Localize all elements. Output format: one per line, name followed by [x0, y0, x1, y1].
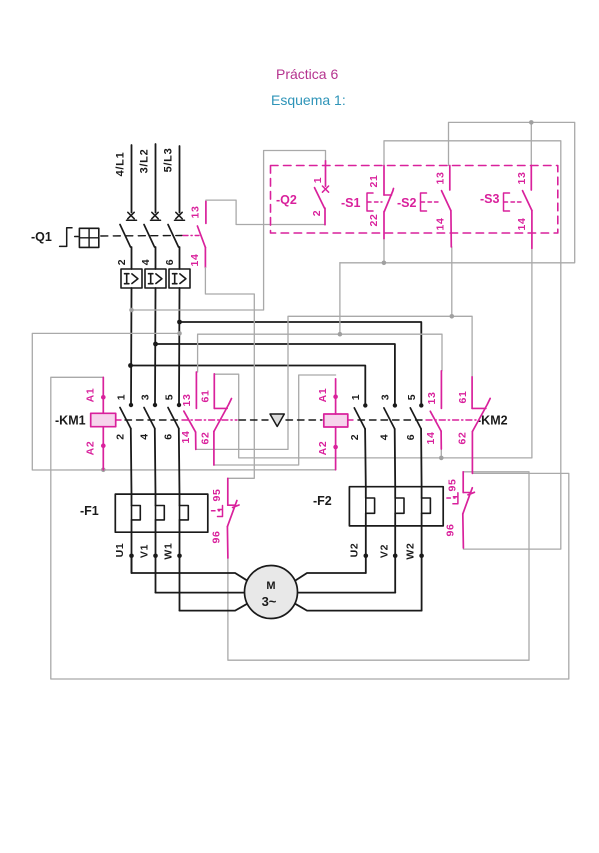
svg-text:A1: A1 — [85, 388, 97, 403]
svg-text:13: 13 — [181, 393, 193, 406]
junction on L1 for KM2 branch — [128, 363, 133, 368]
wire L2 between Q1 blade and overcurrent release — [155, 247, 157, 269]
contactor KM2 linkage dashes through aux — [426, 419, 476, 421]
contactor KM2 coil A2 lead — [335, 427, 337, 470]
pushbutton S1 NC blade — [384, 189, 393, 212]
wire KM2 14 drop to rail — [440, 431, 442, 458]
svg-text:13: 13 — [426, 391, 438, 404]
wire L2 from release down to KM1 pole 3 — [154, 288, 157, 405]
wire U2 to motor — [294, 573, 366, 581]
terminal dot V1 — [153, 554, 158, 559]
terminal dot W1 — [177, 554, 182, 559]
wire L2 branch to KM2 pole 3 — [156, 344, 395, 405]
breaker Q1 pole 2 terminal bar — [151, 219, 161, 221]
svg-text:5/L3: 5/L3 — [163, 148, 175, 173]
breaker Q2 X mark — [322, 186, 328, 192]
svg-text:4: 4 — [140, 259, 152, 266]
wire S3 13 supply drop — [530, 122, 532, 165]
junction KM2 A2 — [333, 445, 338, 450]
svg-text:Esquema 1:: Esquema 1: — [271, 92, 346, 108]
thermal relay F1 heater element pole2 — [156, 506, 165, 520]
svg-text:14: 14 — [435, 217, 447, 230]
wire F1 pole1 to U1 terminal — [131, 532, 133, 573]
wire U1 to motor — [132, 556, 249, 581]
contactor KM2 aux NC blade — [472, 398, 490, 431]
contactor KM1 aux NC bottom lead — [213, 432, 215, 466]
breaker Q1 link dash — [75, 236, 78, 238]
contactor KM1 pole 3 bottom lead — [154, 429, 157, 495]
contactor KM2 coil — [324, 414, 348, 427]
contactor KM2 pole 3 bottom lead — [394, 429, 397, 487]
wire W1 to motor — [180, 603, 249, 610]
wire stop-chain rail down to KM1-13 and KM2-13 — [198, 263, 442, 372]
pushbutton S2 actuator link dashes — [428, 201, 440, 203]
thermal relay F2 box — [349, 487, 443, 526]
svg-text:-F1: -F1 — [80, 504, 99, 518]
svg-text:21: 21 — [368, 174, 380, 187]
svg-text:-S1: -S1 — [341, 196, 361, 210]
contactor KM1 pole 1 terminal — [129, 403, 133, 407]
contactor KM1 aux NC blade — [214, 399, 232, 432]
svg-text:5: 5 — [164, 394, 176, 401]
svg-text:V2: V2 — [379, 544, 391, 558]
pushbutton S2 NO blade — [442, 191, 451, 211]
svg-text:4: 4 — [139, 433, 151, 440]
thermal relay F2 heater element pole3 — [422, 498, 431, 513]
wire Q1 aux 14 down to F1 95 — [205, 268, 254, 479]
thermal relay F1 box — [115, 494, 208, 532]
pushbutton S3 actuator symbol — [504, 193, 510, 211]
wire F2 pole1 to U2 terminal — [365, 526, 367, 573]
thermal relay F2 heater element pole1 — [366, 498, 375, 513]
thermal relay F2 trip contact 95 top lead — [462, 472, 464, 493]
breaker Q2 blade — [315, 188, 325, 209]
wire phase L3 incoming — [179, 146, 181, 213]
contactor KM1 pole 5 bottom lead — [178, 429, 181, 495]
wire F1 96 loop around bottom to F2 95 — [228, 472, 529, 660]
svg-text:13: 13 — [516, 171, 528, 184]
svg-text:3~: 3~ — [262, 594, 277, 609]
breaker Q1 pole 1 blade — [120, 225, 131, 248]
wire L1 from release down to KM1 pole 1 — [130, 288, 133, 405]
terminal dot V2 — [393, 554, 398, 559]
junction KM1 A1 — [101, 395, 106, 400]
contactor KM1 pole 5 blade — [168, 408, 179, 429]
svg-text:4: 4 — [378, 434, 390, 441]
thermal relay F1 trip contact jog — [228, 504, 236, 506]
breaker Q1 pole 3 terminal bar — [175, 219, 185, 221]
breaker Q1 auxiliary contact 13-14 bottom lead — [204, 247, 206, 267]
wire F2 pole3 stub through box — [421, 487, 423, 526]
wire F1 pole2 stub through box — [155, 494, 157, 532]
svg-text:1: 1 — [312, 177, 324, 184]
svg-text:2: 2 — [349, 434, 361, 441]
svg-text:M: M — [266, 580, 275, 592]
contactor KM1 pole 3 blade — [144, 408, 155, 429]
svg-text:U1: U1 — [114, 543, 126, 558]
contactor KM2 pole 5 terminal — [419, 403, 423, 407]
wire phase L1 incoming — [131, 145, 133, 213]
thermal relay F2 heater element pole2 — [395, 498, 404, 513]
wire F2 pole2 to V2 terminal — [394, 526, 396, 593]
breaker Q2 bottom lead — [324, 208, 326, 225]
breaker Q1 pole 1 terminal bar — [127, 219, 137, 221]
pushbutton S1 NC jog — [384, 194, 392, 196]
overcurrent release I> box pole2 — [145, 269, 166, 288]
wire L3 from release down to KM1 pole 5 — [178, 288, 181, 405]
thermal relay F1 heater element pole1 — [132, 506, 141, 520]
pushbutton S2 NO top lead — [449, 166, 451, 191]
svg-text:A2: A2 — [317, 441, 329, 456]
wire L1 between Q1 blade and overcurrent release — [131, 247, 133, 269]
svg-text:13: 13 — [189, 205, 201, 218]
contactor KM2 aux NO blade — [430, 411, 441, 431]
junction KM1 A2 — [101, 443, 106, 448]
linkage dashes to interlock triangle — [239, 419, 268, 421]
breaker Q1 pole 3 blade — [168, 225, 179, 248]
breaker Q1 mechanical linkage dashed line black part — [101, 235, 182, 238]
mechanical interlock triangle — [270, 414, 284, 427]
pushbutton S1 NC bottom lead — [383, 212, 385, 239]
contactor KM1 pole 1 blade — [120, 408, 131, 429]
contactor KM1 coil A2 lead — [102, 427, 104, 470]
svg-text:14: 14 — [425, 431, 437, 444]
wire F2 96 to S1 21 — [384, 141, 561, 549]
svg-text:2: 2 — [116, 259, 128, 266]
wire F1 pole2 to V1 terminal — [155, 532, 157, 592]
breaker Q1 pole 2 X mark — [152, 212, 158, 218]
svg-text:Práctica 6: Práctica 6 — [276, 66, 338, 82]
svg-text:3: 3 — [140, 394, 152, 401]
breaker Q1 auxiliary contact 13-14 blade — [197, 226, 205, 247]
svg-text:-KM1: -KM1 — [55, 414, 86, 428]
svg-text:V1: V1 — [139, 544, 151, 558]
svg-text:62: 62 — [457, 431, 469, 444]
pushbutton S2 actuator symbol — [421, 193, 427, 211]
wire control supply tap on L1 up to Q2 input — [132, 151, 326, 311]
junction on L2 for KM2 branch — [153, 342, 158, 347]
contactor KM1 linkage dashes coil to poles — [117, 419, 123, 421]
svg-text:14: 14 — [189, 253, 201, 266]
svg-text:4/L1: 4/L1 — [115, 152, 127, 177]
breaker Q1 manual actuator step symbol — [60, 228, 72, 247]
contactor KM1 pole 3 terminal — [153, 403, 157, 407]
pushbutton S1 NC top lead — [383, 166, 385, 196]
breaker Q2 top lead — [325, 161, 327, 186]
junction KM1 A2 on return — [101, 468, 106, 473]
svg-text:W1: W1 — [163, 542, 175, 559]
contactor KM1 aux NC jog — [214, 407, 227, 409]
wire V2 to motor — [298, 592, 396, 594]
wire Q2 output to Q1 aux 13 — [206, 200, 325, 224]
pushbutton S2 NO bottom lead — [450, 211, 452, 247]
wire L1 branch to KM2 pole 1 — [131, 366, 366, 406]
svg-text:-F2: -F2 — [313, 494, 332, 508]
svg-text:95: 95 — [211, 488, 223, 501]
contactor KM2 pole 3 blade — [384, 408, 395, 429]
junction KM2 14 on KM1-61 wire — [439, 456, 444, 461]
contactor KM2 pole 5 bottom lead — [420, 429, 423, 487]
contactor KM2 pole 1 bottom lead — [364, 429, 367, 487]
wire L3 between Q1 blade and overcurrent release — [179, 247, 181, 269]
thermal relay F2 trip contact 96 bottom lead — [462, 514, 465, 548]
wire KM1 62 to KM2 A1 — [214, 375, 336, 465]
wire F2 pole3 to W2 terminal — [421, 526, 423, 611]
pushbutton S3 NO top lead — [530, 166, 532, 191]
contactor KM1 linkage dashes through aux — [182, 419, 237, 421]
junction return tap on L3 — [177, 331, 182, 336]
svg-text:3/L2: 3/L2 — [139, 149, 151, 174]
overcurrent release I> box pole1 — [121, 269, 142, 288]
pushbutton S3 actuator link dashes — [511, 201, 522, 203]
contactor KM1 aux NC 61-62 top lead — [213, 374, 215, 409]
thermal relay F2 trip contact jog — [463, 492, 471, 494]
thermal relay F2 trip contact blade with tick — [463, 488, 475, 514]
breaker Q1 pole 3 X mark — [176, 212, 182, 218]
contactor KM2 pole 3 terminal — [393, 403, 397, 407]
contactor KM2 pole 1 blade — [354, 408, 365, 429]
svg-text:-S2: -S2 — [397, 196, 417, 210]
wire L3 branch to KM2 pole 5 — [180, 322, 422, 405]
motor M 3-phase — [245, 566, 298, 619]
svg-text:2: 2 — [311, 210, 323, 217]
thermal relay F1 heater element pole3 — [180, 506, 189, 520]
svg-text:95: 95 — [447, 478, 459, 491]
wire W2 to motor — [294, 603, 421, 610]
wire F1 pole3 stub through box — [179, 494, 181, 532]
wire coil return from L3 to KM1 A2 and KM2 A2 — [32, 333, 335, 470]
svg-text:96: 96 — [211, 530, 223, 543]
terminal dot W2 — [419, 554, 424, 559]
thermal relay F1 trip contact 95 top lead — [227, 478, 229, 505]
contactor KM2 pole 1 terminal — [363, 403, 367, 407]
svg-text:61: 61 — [200, 389, 212, 402]
wire F2 pole1 stub through box — [365, 487, 367, 526]
thermal relay F1 trip contact blade with tick — [227, 501, 239, 527]
svg-text:U2: U2 — [349, 543, 361, 558]
junction stop chain corner — [338, 332, 343, 337]
pushbutton S1 actuator link dashes — [375, 201, 383, 203]
control dashed enclosure box — [271, 166, 558, 234]
pushbutton S3 NO blade — [523, 191, 532, 211]
svg-text:1: 1 — [116, 394, 128, 401]
terminal dot U2 — [364, 554, 369, 559]
svg-text:22: 22 — [368, 213, 380, 226]
contactor KM2 aux NO bottom lead — [440, 431, 442, 449]
wire S2 14 drop to rail — [451, 247, 453, 316]
svg-text:W2: W2 — [405, 542, 417, 559]
svg-text:3: 3 — [379, 394, 391, 401]
svg-text:61: 61 — [457, 390, 469, 403]
wire KM1 14 and S2 14 to KM2 61 — [196, 316, 472, 449]
linkage dashes triangle to KM2 coil — [286, 419, 322, 421]
svg-text:96: 96 — [445, 523, 457, 536]
breaker Q1 pole 1 X mark — [128, 212, 134, 218]
svg-text:2: 2 — [115, 433, 127, 440]
breaker Q1 auxiliary contact 13-14 top lead — [205, 201, 207, 223]
contactor KM1 aux NO 13-14 top lead — [195, 372, 197, 408]
contactor KM2 aux NC jog — [472, 407, 486, 409]
pushbutton S1 actuator symbol — [367, 193, 373, 211]
svg-text:6: 6 — [163, 433, 175, 440]
breaker Q1 release square symbol — [79, 228, 98, 247]
contactor KM1 pole 1 bottom lead — [130, 429, 133, 495]
contactor KM1 aux NO blade — [184, 411, 196, 432]
svg-text:-Q2: -Q2 — [276, 193, 297, 207]
pushbutton S3 NO bottom lead — [531, 211, 533, 249]
wire S1 22 distribution rail — [340, 122, 575, 262]
contactor KM2 linkage dashes coil to poles — [349, 419, 357, 421]
contactor KM1 coil A1 lead — [102, 377, 104, 413]
contactor KM2 aux NC bottom lead — [471, 432, 473, 474]
svg-text:14: 14 — [180, 430, 192, 443]
junction S2 14 on KM2-61 wire — [450, 314, 455, 319]
wire F1 pole1 stub through box — [131, 494, 133, 532]
svg-text:6: 6 — [405, 434, 417, 441]
wire KM2 62 big loop to KM1 A1 — [51, 377, 569, 679]
contactor KM1 aux NO bottom lead — [195, 432, 197, 449]
overcurrent release I> box pole3 — [169, 269, 190, 288]
wire F1 pole3 to W1 terminal — [179, 532, 181, 610]
svg-text:A1: A1 — [317, 388, 329, 403]
svg-text:A2: A2 — [85, 441, 97, 456]
svg-text:-Q1: -Q1 — [31, 230, 52, 244]
wire V1 to motor — [156, 592, 245, 594]
thermal relay F1 trip function symbol — [212, 506, 223, 517]
contactor KM2 aux NC 61-62 top lead — [471, 377, 473, 409]
junction KM2 A1 — [333, 394, 338, 399]
contactor KM2 pole 5 blade — [410, 408, 421, 429]
wire phase L2 incoming — [155, 144, 157, 213]
terminal dot U1 — [129, 554, 134, 559]
wire S1 22 junction drop — [383, 239, 385, 263]
svg-text:6: 6 — [164, 259, 176, 266]
junction control tap on L1 — [129, 308, 134, 313]
svg-text:14: 14 — [516, 217, 528, 230]
svg-text:13: 13 — [435, 171, 447, 184]
contactor KM2 coil A1 lead — [335, 379, 337, 414]
contactor KM1 pole 5 terminal — [177, 403, 181, 407]
svg-text:-S3: -S3 — [480, 192, 500, 206]
wire F2 pole2 stub through box — [394, 487, 396, 526]
junction S3 13 on supply rail — [529, 120, 534, 125]
contactor KM1 coil — [91, 413, 116, 426]
svg-text:62: 62 — [200, 431, 212, 444]
svg-text:5: 5 — [406, 394, 418, 401]
svg-text:1: 1 — [350, 394, 362, 401]
junction S1 22 on rail — [382, 261, 387, 266]
thermal relay F1 trip contact 96 bottom lead — [226, 527, 229, 558]
wire KM1 61 feed from S3 14 and KM2 14 — [214, 248, 532, 458]
contactor KM2 aux NO 13-14 top lead — [440, 371, 442, 409]
breaker Q1 mechanical linkage dashed line pink part — [183, 235, 199, 237]
breaker Q1 pole 2 blade — [144, 225, 155, 248]
junction on L3 for KM2 branch — [177, 320, 182, 325]
thermal relay F2 trip function symbol — [447, 493, 458, 504]
